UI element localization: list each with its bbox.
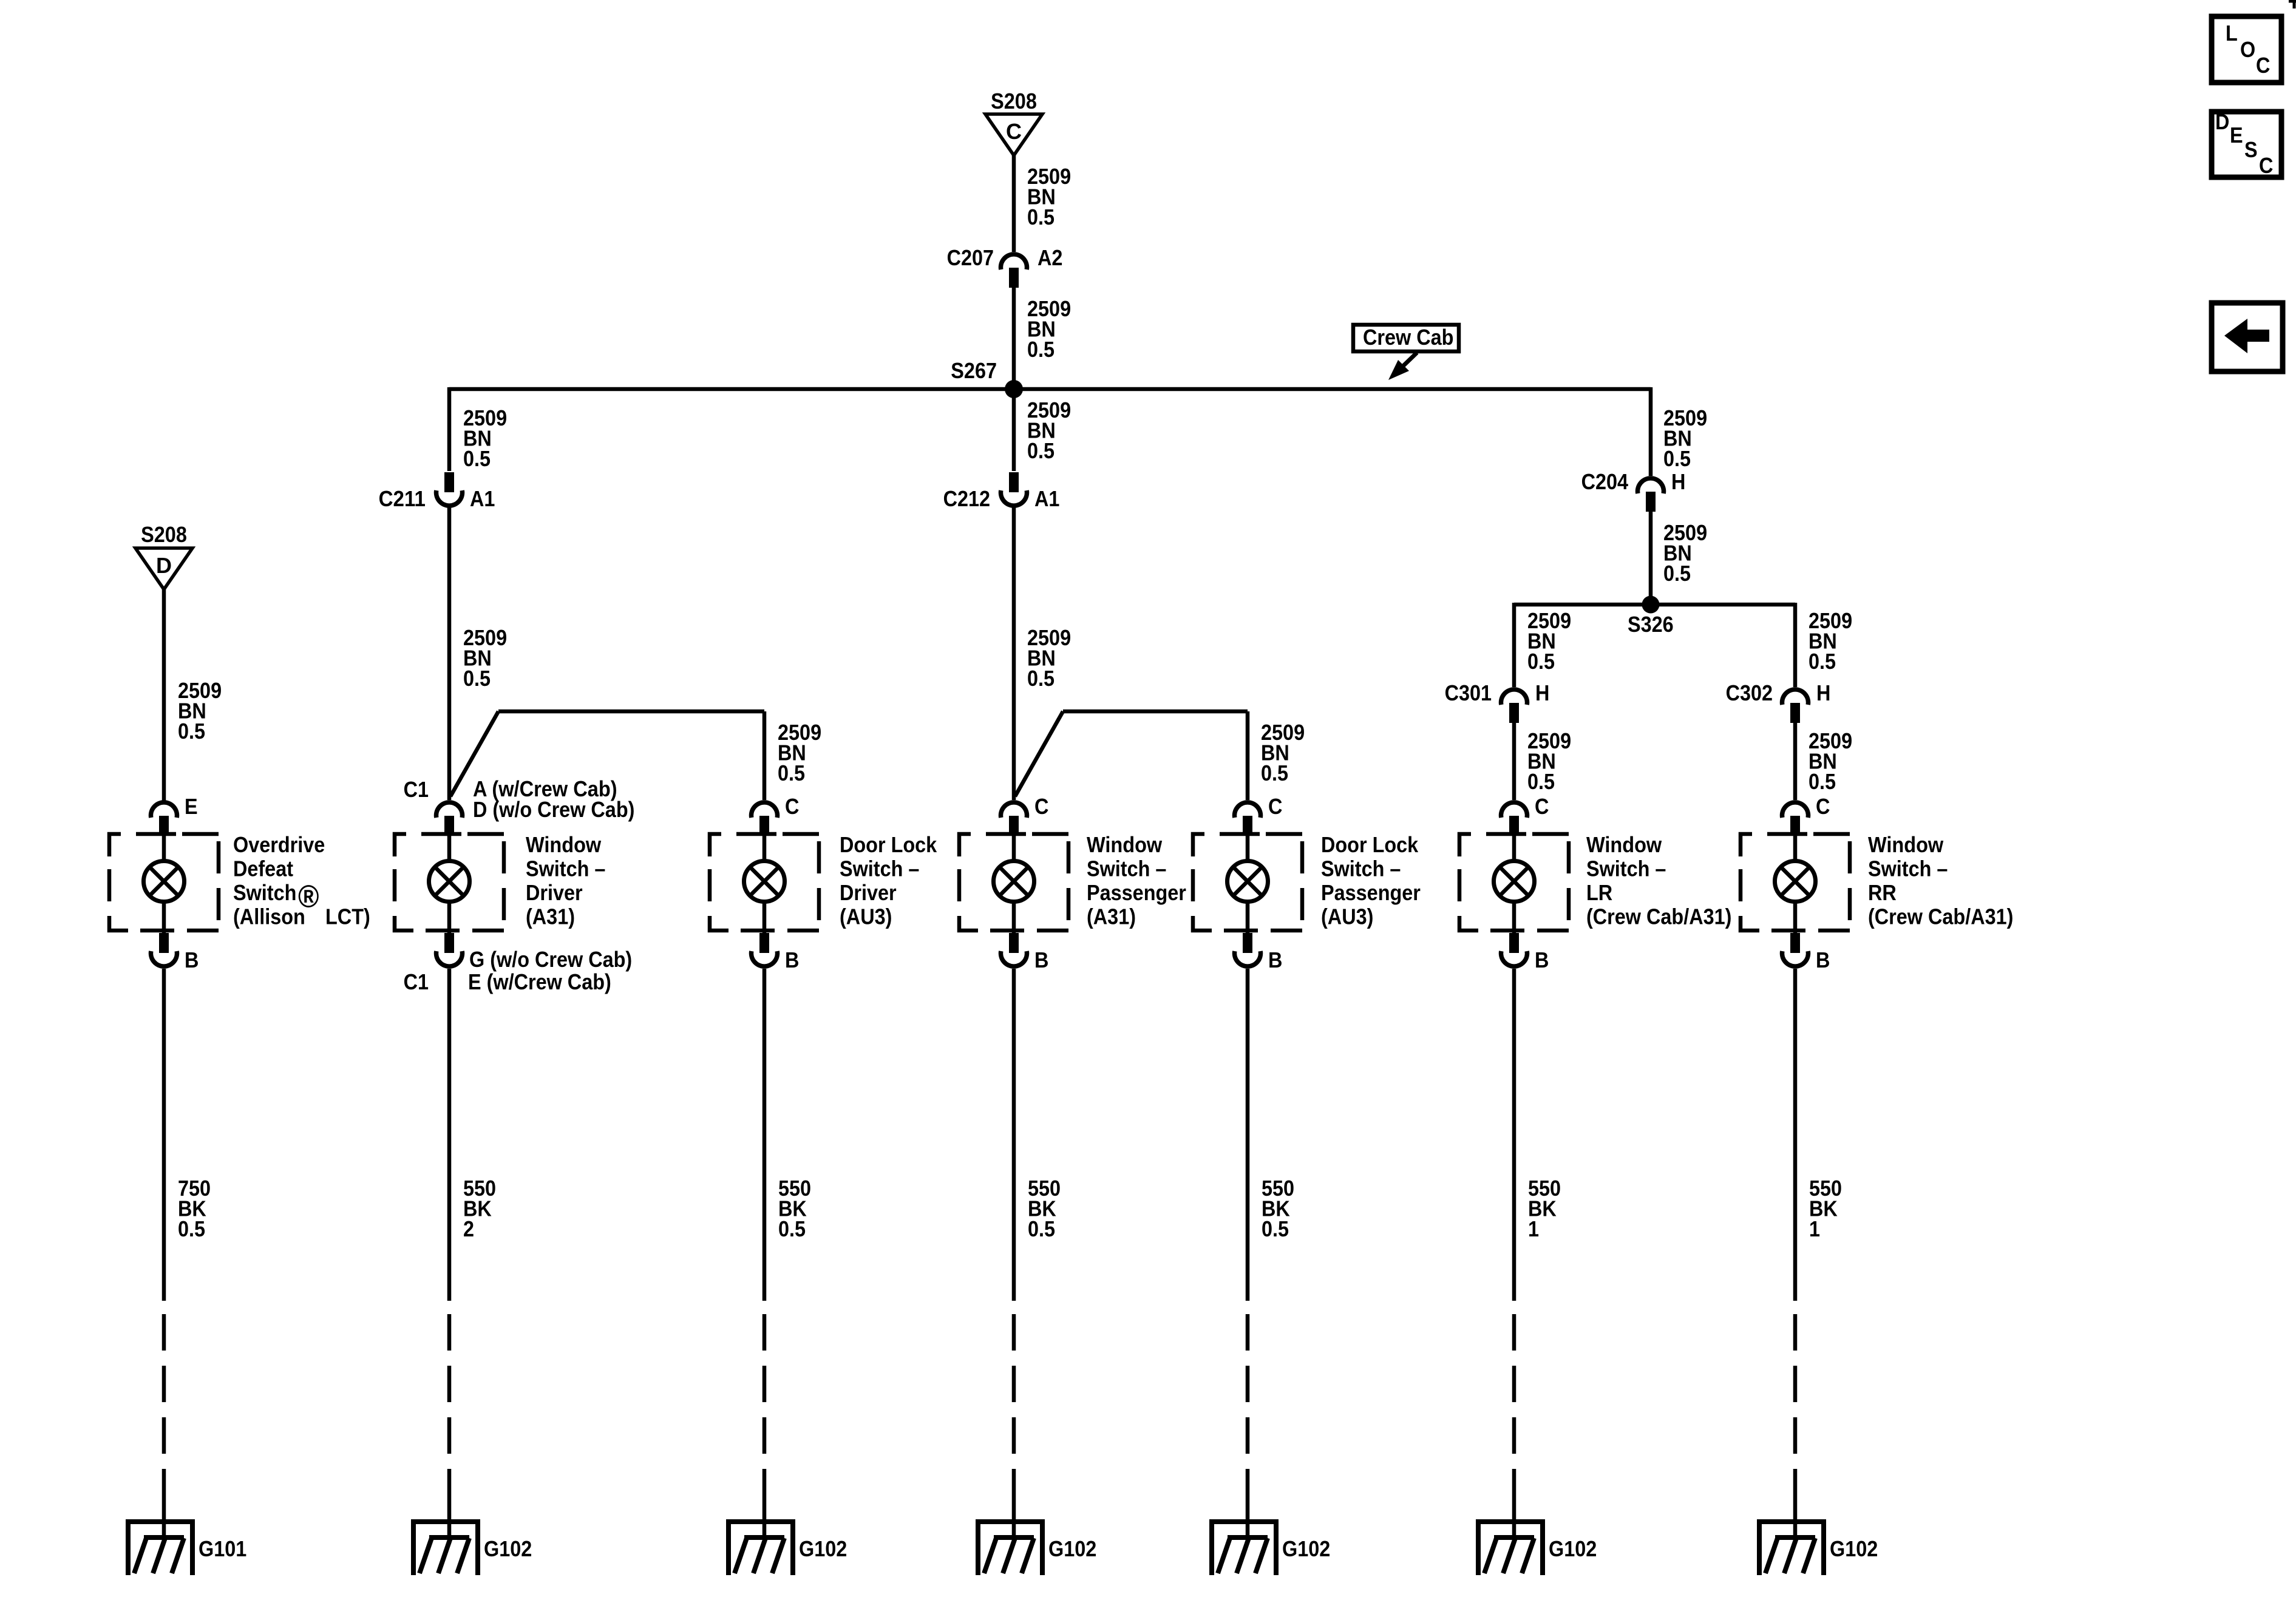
ground G102: [1476, 1519, 1597, 1575]
wire main bus S267: [449, 387, 1651, 392]
svg-text:H: H: [1671, 469, 1685, 494]
svg-text:Switch –: Switch –: [526, 856, 605, 881]
ground G102: [411, 1519, 532, 1575]
svg-text:0.5: 0.5: [463, 446, 491, 471]
connector pin C at window switch LR: [1501, 794, 1549, 836]
svg-text:(AU3): (AU3): [840, 904, 892, 929]
ground G102: [726, 1519, 847, 1575]
svg-text:Door Lock: Door Lock: [1321, 832, 1419, 857]
svg-text:(A31): (A31): [1087, 904, 1136, 929]
svg-text:0.5: 0.5: [778, 761, 805, 785]
svg-text:H: H: [1816, 680, 1830, 705]
wire ground stub: [1246, 1505, 1250, 1537]
svg-text:C301: C301: [1445, 680, 1492, 705]
dashed box window switch LR: [1459, 834, 1569, 931]
svg-text:Door Lock: Door Lock: [840, 832, 937, 857]
wire ground stub: [1793, 1505, 1798, 1537]
svg-text:®: ®: [298, 880, 319, 915]
svg-text:C: C: [1268, 794, 1282, 819]
ground G102: [1757, 1519, 1878, 1575]
dashed box door lock switch passenger: [1193, 834, 1302, 931]
wire diagonal from passenger window switch C: [1015, 711, 1063, 796]
wire S208-D to overdrive switch: [162, 589, 166, 802]
svg-text:Crew Cab: Crew Cab: [1363, 325, 1453, 350]
svg-text:E: E: [185, 794, 198, 819]
svg-text:0.5: 0.5: [1027, 337, 1055, 362]
wire C212 to window switch passenger: [1012, 507, 1016, 800]
ground G101: [126, 1519, 246, 1575]
lamp symbol in window switch LR: [1494, 861, 1535, 902]
svg-text:G (w/o Crew Cab): G (w/o Crew Cab): [469, 947, 632, 972]
connector C1 pins G/E at window switch driver: [404, 933, 633, 994]
svg-text:Passenger: Passenger: [1087, 880, 1186, 905]
connector C1 pins A/D at window switch driver: [404, 776, 635, 836]
wire label 550 BK 1: [1809, 1176, 1842, 1241]
svg-text:0.5: 0.5: [178, 1216, 205, 1241]
svg-text:0.5: 0.5: [1663, 561, 1691, 586]
wire bus to C204 corner: [1649, 387, 1653, 476]
DESC reference box: [2212, 109, 2281, 178]
wire through door lock switch driver: [763, 835, 767, 933]
wire door lock switch driver to ground (dashed): [763, 1314, 767, 1505]
svg-text:G102: G102: [484, 1536, 532, 1561]
svg-text:C: C: [1006, 119, 1022, 144]
off-page triangle S208-D: [135, 548, 192, 589]
dashed box window switch passenger: [959, 834, 1068, 931]
off-page triangle S208-C: [985, 114, 1042, 155]
svg-text:L: L: [2226, 21, 2238, 46]
wire S267 to C212: [1012, 389, 1016, 471]
wire C207 to S267: [1012, 288, 1016, 389]
svg-text:G102: G102: [799, 1536, 847, 1561]
svg-text:Defeat: Defeat: [233, 856, 293, 881]
Crew Cab callout arrow: [1388, 353, 1417, 380]
svg-text:Switch –: Switch –: [1586, 856, 1666, 881]
wire link horizontal to door lock passenger: [1063, 710, 1248, 714]
lamp symbol in door lock switch passenger: [1228, 861, 1268, 902]
svg-text:C: C: [2256, 53, 2270, 78]
svg-text:Window: Window: [1586, 832, 1662, 857]
svg-text:0.5: 0.5: [1261, 761, 1288, 785]
svg-text:Window: Window: [1868, 832, 1944, 857]
label door lock switch driver: [840, 832, 937, 929]
svg-text:C: C: [785, 794, 799, 819]
svg-text:Switch –: Switch –: [1321, 856, 1401, 881]
wire window switch driver to ground (dashed): [447, 1314, 452, 1505]
wire label 2509 BN 0.5 (S326-C301): [1527, 608, 1571, 674]
wire C204 to S326: [1649, 511, 1653, 605]
wire label 2509 BN 0.5 (door lock driver): [778, 720, 821, 785]
wire through window switch LR: [1512, 835, 1517, 933]
LOC reference box: [2212, 16, 2281, 83]
wire label 2509 BN 0.5 (bus-C204): [1663, 405, 1707, 471]
ground G102: [1209, 1519, 1330, 1575]
svg-text:0.5: 0.5: [1809, 649, 1836, 674]
svg-text:E (w/Crew Cab): E (w/Crew Cab): [468, 969, 611, 994]
svg-text:B: B: [185, 947, 199, 972]
wire label 2509 BN 0.5 (S208C-C207): [1027, 164, 1071, 229]
connector C211 pin A1: [379, 472, 495, 511]
dashed box overdrive defeat switch: [109, 834, 219, 931]
label window switch LR: [1586, 832, 1731, 929]
svg-text:Driver: Driver: [526, 880, 583, 905]
svg-text:0.5: 0.5: [778, 1216, 806, 1241]
wire door lock switch passenger to ground (solid): [1246, 969, 1250, 1301]
wire C302 to window switch RR: [1793, 722, 1798, 800]
svg-text:S267: S267: [951, 358, 997, 383]
wire through window switch RR: [1793, 835, 1798, 933]
svg-text:Driver: Driver: [840, 880, 897, 905]
svg-text:S: S: [2244, 137, 2258, 162]
wire label 2509 BN 0.5 (below S267): [1027, 398, 1071, 463]
svg-text:1: 1: [1809, 1216, 1820, 1241]
connector C207 pin A2: [947, 245, 1063, 288]
svg-text:0.5: 0.5: [1028, 1216, 1055, 1241]
wire ground stub: [1012, 1505, 1016, 1537]
wire link down to door lock driver pin C: [763, 711, 767, 800]
svg-text:O: O: [2240, 37, 2255, 62]
connector pin B at overdrive defeat switch: [151, 933, 199, 972]
connector pin B at window switch passenger: [1001, 933, 1049, 972]
wire label 2509 BN 0.5 (C207-S267): [1027, 296, 1071, 362]
label window switch RR: [1868, 832, 2013, 929]
dashed box door lock switch driver: [710, 834, 819, 931]
svg-text:Overdrive: Overdrive: [233, 832, 325, 857]
wire C211 to window switch driver: [447, 507, 452, 800]
svg-text:1: 1: [1528, 1216, 1539, 1241]
svg-text:(Crew Cab/A31): (Crew Cab/A31): [1586, 904, 1731, 929]
wire label 550 BK 1: [1528, 1176, 1561, 1241]
svg-text:C212: C212: [943, 486, 990, 511]
svg-text:G101: G101: [199, 1536, 246, 1561]
svg-text:B: B: [785, 947, 799, 972]
connector pin C at door lock switch passenger: [1235, 794, 1283, 836]
svg-text:0.5: 0.5: [1027, 205, 1055, 229]
Crew Cab callout box: [1353, 325, 1459, 351]
wire S326 horizontal: [1514, 603, 1795, 607]
label window switch passenger: [1087, 832, 1186, 929]
svg-text:C: C: [1816, 794, 1830, 819]
svg-text:D: D: [2215, 109, 2229, 134]
wire window switch driver to ground (solid): [447, 969, 452, 1301]
connector C212 pin A1: [943, 472, 1060, 511]
wire label 2509 BN 0.5 (S326-C302): [1809, 608, 1852, 674]
wire label 750 BK 0.5: [178, 1176, 211, 1241]
svg-text:S208: S208: [991, 89, 1037, 114]
svg-text:0.5: 0.5: [1027, 666, 1055, 691]
wire ground stub: [162, 1505, 166, 1537]
svg-text:Window: Window: [1087, 832, 1163, 857]
svg-text:Window: Window: [526, 832, 602, 857]
wire ground stub: [447, 1505, 452, 1537]
wire bus corner to C211: [447, 387, 452, 471]
wire ground stub: [763, 1505, 767, 1537]
wire label 550 BK 0.5: [778, 1176, 811, 1241]
wire S208-C to C207: [1012, 155, 1016, 252]
svg-text:Switch –: Switch –: [1087, 856, 1166, 881]
wire label 2509 BN 0.5 (C204-S326): [1663, 520, 1707, 586]
connector C204 pin H: [1581, 469, 1686, 512]
node S326 junction dot: [1642, 596, 1660, 614]
splice S267 label: [951, 358, 997, 383]
lamp symbol in overdrive defeat switch: [144, 861, 185, 902]
splice symbol S208 label (left): [141, 522, 187, 547]
wire label 2509 BN 0.5 (S208D-switch): [178, 678, 222, 744]
svg-text:Switch –: Switch –: [1868, 856, 1948, 881]
node S267 junction dot: [1005, 380, 1023, 398]
connector pin B at door lock switch passenger: [1235, 933, 1283, 972]
svg-text:C: C: [1034, 794, 1048, 819]
wire label 2509 BN 0.5 (bus-C211): [463, 405, 507, 471]
connector pin B at window switch LR: [1501, 933, 1549, 972]
svg-text:H: H: [1535, 680, 1549, 705]
svg-text:0.5: 0.5: [1527, 649, 1555, 674]
svg-text:C207: C207: [947, 245, 994, 270]
wire diagonal from driver window switch C1: [450, 711, 498, 796]
wire link horizontal to door lock driver: [498, 710, 764, 714]
wire door lock switch driver to ground (solid): [763, 969, 767, 1301]
lamp symbol in window switch driver: [429, 861, 470, 902]
lamp symbol in window switch RR: [1775, 861, 1816, 902]
wire S326 down to C301: [1512, 603, 1517, 687]
svg-text:C211: C211: [379, 486, 426, 511]
svg-text:C204: C204: [1581, 469, 1628, 494]
svg-text:G102: G102: [1282, 1536, 1330, 1561]
svg-text:S326: S326: [1628, 612, 1674, 637]
svg-text:Switch: Switch: [233, 880, 296, 905]
svg-text:A1: A1: [1034, 486, 1059, 511]
svg-text:C1: C1: [404, 777, 429, 802]
wire label 2509 BN 0.5 (C301-switch): [1527, 728, 1571, 794]
svg-text:0.5: 0.5: [1809, 769, 1836, 794]
connector C302 pin H: [1726, 680, 1831, 723]
wire through window switch driver: [447, 835, 452, 933]
wire through window switch passenger: [1012, 835, 1016, 933]
wire label 550 BK 2: [463, 1176, 496, 1241]
wire label 2509 BN 0.5 (door lock passenger): [1261, 720, 1305, 785]
svg-text:B: B: [1535, 947, 1549, 972]
wire label 2509 BN 0.5 (C302-switch): [1809, 728, 1852, 794]
ground G102: [976, 1519, 1096, 1575]
wire door lock switch passenger to ground (dashed): [1246, 1314, 1250, 1505]
page corner tick: [2289, 0, 2296, 8]
wire label 550 BK 0.5: [1028, 1176, 1061, 1241]
wire C301 to window switch LR: [1512, 722, 1517, 800]
svg-text:C: C: [1535, 794, 1549, 819]
svg-text:S208: S208: [141, 522, 187, 547]
svg-text:D (w/o Crew Cab): D (w/o Crew Cab): [473, 797, 634, 822]
svg-text:0.5: 0.5: [178, 719, 205, 744]
svg-text:G102: G102: [1830, 1536, 1878, 1561]
connector pin B at door lock switch driver: [751, 933, 799, 972]
svg-text:(A31): (A31): [526, 904, 575, 929]
svg-text:A1: A1: [470, 486, 495, 511]
connector pin B at window switch RR: [1782, 933, 1830, 972]
svg-text:B: B: [1816, 947, 1830, 972]
svg-text:(Allison: (Allison: [233, 904, 305, 929]
svg-text:0.5: 0.5: [1527, 769, 1555, 794]
svg-text:G102: G102: [1048, 1536, 1096, 1561]
dashed box window switch driver: [395, 834, 504, 931]
wire window switch LR to ground (solid): [1512, 969, 1517, 1301]
svg-text:RR: RR: [1868, 880, 1897, 905]
svg-text:LR: LR: [1586, 880, 1612, 905]
svg-text:A2: A2: [1038, 245, 1062, 270]
wire ground stub: [1512, 1505, 1517, 1537]
label door lock switch passenger: [1321, 832, 1421, 929]
svg-text:(Crew Cab/A31): (Crew Cab/A31): [1868, 904, 2013, 929]
connector C301 pin H: [1445, 680, 1550, 723]
svg-text:LCT): LCT): [325, 904, 370, 929]
splice symbol S208 label (top): [991, 89, 1037, 114]
connector pin E at overdrive defeat switch: [151, 794, 198, 836]
lamp symbol in door lock switch driver: [744, 861, 785, 902]
wire overdrive defeat switch to ground (solid): [162, 969, 166, 1301]
svg-text:0.5: 0.5: [463, 666, 491, 691]
label overdrive defeat switch: [233, 832, 370, 929]
label window switch driver: [526, 832, 605, 929]
wire window switch passenger to ground (solid): [1012, 969, 1016, 1301]
svg-text:B: B: [1034, 947, 1048, 972]
wire window switch LR to ground (dashed): [1512, 1314, 1517, 1505]
lamp symbol in window switch passenger: [994, 861, 1034, 902]
svg-text:0.5: 0.5: [1262, 1216, 1289, 1241]
wire label 2509 BN 0.5 (C211-switch): [463, 625, 507, 691]
svg-text:0.5: 0.5: [1663, 446, 1691, 471]
wire link down to door lock passenger pin C: [1246, 711, 1250, 800]
back-arrow navigation box: [2212, 303, 2283, 371]
wire S326 down to C302: [1793, 603, 1798, 687]
dashed box window switch RR: [1741, 834, 1850, 931]
wire window switch RR to ground (solid): [1793, 969, 1798, 1301]
svg-text:D: D: [156, 553, 172, 578]
svg-text:C: C: [2259, 153, 2273, 178]
svg-text:C1: C1: [404, 969, 429, 994]
svg-text:Passenger: Passenger: [1321, 880, 1421, 905]
wire overdrive defeat switch to ground (dashed): [162, 1314, 166, 1505]
wire through overdrive defeat switch: [162, 835, 166, 933]
svg-text:E: E: [2230, 123, 2243, 147]
svg-text:C302: C302: [1726, 680, 1773, 705]
wire through door lock switch passenger: [1246, 835, 1250, 933]
wire label 550 BK 0.5: [1262, 1176, 1294, 1241]
connector pin C at door lock switch driver: [752, 794, 800, 836]
splice S326 label: [1628, 612, 1674, 637]
wire window switch passenger to ground (dashed): [1012, 1314, 1016, 1505]
wire label 2509 BN 0.5 (C212-switch): [1027, 625, 1071, 691]
svg-text:2: 2: [463, 1216, 474, 1241]
svg-text:(AU3): (AU3): [1321, 904, 1373, 929]
svg-text:G102: G102: [1549, 1536, 1597, 1561]
connector pin C at window switch RR: [1782, 794, 1830, 836]
svg-text:B: B: [1268, 947, 1282, 972]
svg-text:0.5: 0.5: [1027, 438, 1055, 463]
wire window switch RR to ground (dashed): [1793, 1314, 1798, 1505]
connector pin C at window switch passenger: [1001, 794, 1049, 836]
svg-text:Switch –: Switch –: [840, 856, 919, 881]
